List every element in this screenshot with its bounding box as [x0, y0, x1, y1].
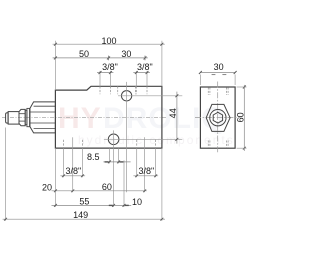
spring cap hex facet lines — [34, 105, 56, 107]
washer — [25, 110, 27, 124]
extension line body right — [161, 41, 163, 87]
dimension 8.5 — [103, 161, 130, 163]
dimension 3/8 bottom-right — [133, 175, 158, 177]
dimension 55 / 10 — [52, 204, 132, 206]
extension lines 8.5 dim — [108, 148, 110, 163]
end view hex nut — [206, 104, 230, 131]
svg-text:55: 55 — [79, 197, 89, 207]
spring cap hex outline — [30, 102, 56, 133]
axis centerline of valve — [2, 117, 166, 119]
dimension 20 / 60 bottom — [52, 190, 147, 192]
svg-text:60: 60 — [102, 182, 112, 192]
svg-text:8.5: 8.5 — [87, 152, 100, 162]
svg-text:3/8": 3/8" — [137, 62, 153, 72]
extension line body left — [54, 41, 56, 90]
dimension texts — [42, 36, 246, 220]
centerline lower circle vertical — [113, 130, 115, 207]
centerline bottom left port — [72, 137, 74, 192]
valve body outline — [55, 86, 161, 148]
dimension 3/8 top-right — [133, 72, 150, 74]
end view hex socket — [213, 112, 222, 123]
end view thread circle — [210, 110, 226, 126]
svg-text:149: 149 — [73, 210, 88, 220]
centerline top circle vertical — [126, 82, 128, 192]
end view rectangle — [200, 87, 235, 148]
end view centerline horizontal — [195, 117, 241, 119]
extension lines top right port — [135, 71, 137, 86]
centerline bottom right port — [144, 137, 146, 192]
svg-text:HY: HY — [58, 102, 102, 135]
svg-text:100: 100 — [101, 36, 116, 46]
svg-text:30: 30 — [121, 49, 131, 59]
dimension 149 — [3, 218, 165, 220]
svg-text:3/8": 3/8" — [65, 166, 81, 176]
jam nut outline — [19, 109, 25, 125]
dimension 3/8 bottom-left — [60, 175, 85, 177]
centerline top circle horizontal — [118, 95, 182, 97]
port circle top (gauge port) — [121, 91, 131, 101]
extension lines bottom right port — [136, 148, 138, 177]
end view hidden port lines bottom — [208, 141, 228, 148]
svg-text:50: 50 — [79, 49, 89, 59]
svg-text:10: 10 — [132, 197, 142, 207]
svg-text:60: 60 — [236, 112, 246, 122]
svg-text:20: 20 — [42, 183, 52, 193]
dimension 50 / 30 top — [53, 57, 148, 59]
adjusting screw tip cap — [6, 113, 9, 123]
dimension 44 vertical — [176, 92, 178, 144]
extension lines bottom left port — [63, 148, 65, 177]
hidden thread lines below top edge — [100, 86, 147, 94]
hidden thread lines above bottom edge — [64, 140, 156, 148]
dimension 3/8 top-left — [97, 72, 113, 74]
svg-text:hydraulic components: hydraulic components — [78, 133, 235, 147]
end view hidden port lines top — [208, 88, 228, 96]
end view centerline vertical — [217, 82, 219, 154]
extension line screw tip — [5, 128, 7, 221]
svg-text:DROLIQ: DROLIQ — [103, 102, 226, 135]
port circle lower (pilot port) — [108, 134, 119, 145]
watermark big text HYDROLIQ — [58, 102, 226, 135]
centerline lower circle horizontal — [104, 138, 182, 140]
adjusting screw stem — [8, 112, 19, 125]
dimension 30 end view — [200, 72, 235, 74]
extension line 10 dim right — [123, 160, 125, 207]
spring cap left vertical edge — [29, 109, 31, 127]
svg-text:3/8": 3/8" — [102, 62, 118, 72]
flange washer — [27, 108, 30, 126]
jam nut facet lines — [19, 113, 25, 115]
svg-text:3/8": 3/8" — [138, 166, 154, 176]
dimension 100 — [53, 43, 165, 45]
svg-text:30: 30 — [214, 62, 224, 72]
dimension 60 end view — [243, 85, 245, 151]
extension lines top left port — [99, 71, 101, 86]
svg-text:44: 44 — [168, 108, 178, 118]
